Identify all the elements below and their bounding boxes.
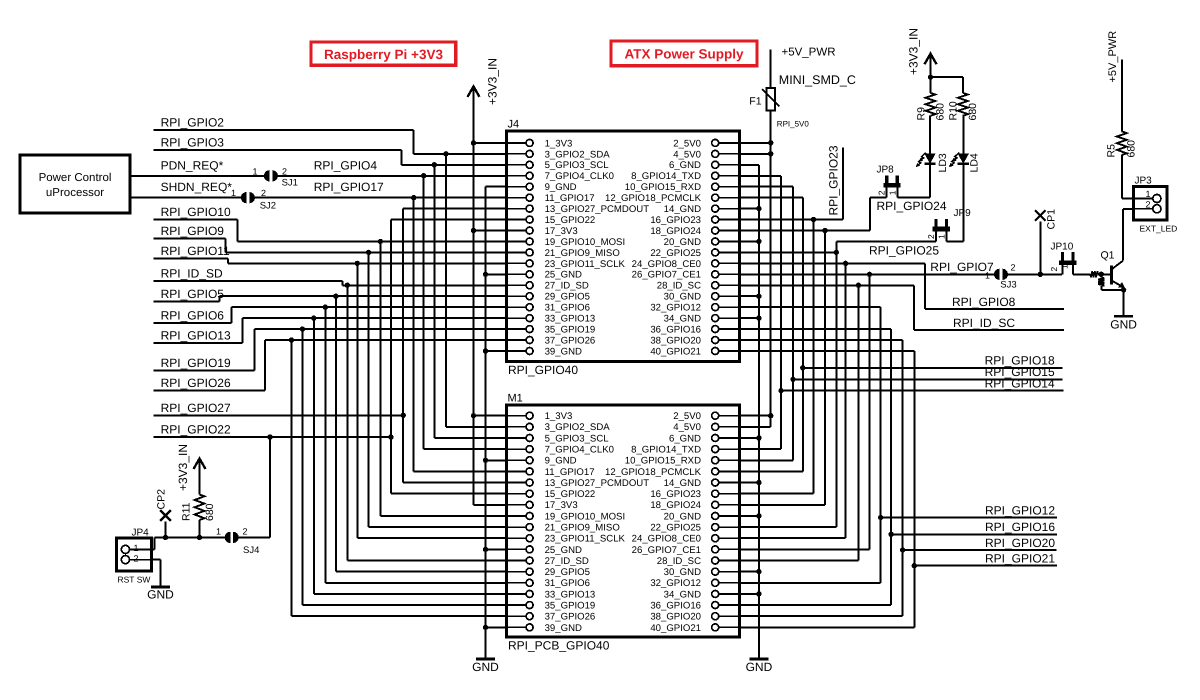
solder jumper SJ3	[994, 269, 1000, 280]
J4 pin 3 (3_GPIO2_SDA)	[507, 153, 527, 155]
junction RPI_GPIO6	[323, 304, 328, 309]
svg-text:1: 1	[985, 271, 990, 281]
J4 pin 7 (7_GPIO4_CLK0)	[507, 175, 527, 177]
M1 pin 2 (2_5V0)	[718, 415, 739, 417]
transistor Q1 pulldown resistor	[1100, 274, 1102, 277]
svg-text:9_GND: 9_GND	[545, 456, 577, 467]
svg-text:RPI_GPIO20: RPI_GPIO20	[985, 536, 1055, 550]
svg-text:RPI_GPIO40: RPI_GPIO40	[508, 363, 578, 377]
svg-text:11_GPIO17: 11_GPIO17	[545, 193, 595, 204]
svg-text:GND: GND	[1110, 318, 1137, 332]
svg-text:RPI_GPIO4: RPI_GPIO4	[314, 159, 378, 173]
svg-text:CP1: CP1	[1046, 209, 1058, 230]
wire RPI_GPIO13 vertical to M1	[313, 318, 315, 594]
svg-text:24_GPIO8_CE0: 24_GPIO8_CE0	[632, 534, 701, 545]
svg-text:MINI_SMD_C: MINI_SMD_C	[779, 73, 856, 87]
svg-text:25_GND: 25_GND	[545, 270, 582, 281]
resistor R10 680	[958, 93, 968, 116]
svg-text:19_GPIO10_MOSI: 19_GPIO10_MOSI	[545, 511, 626, 522]
J4 pin 30 (30_GND)	[718, 295, 739, 297]
svg-text:26_GPIO7_CE1: 26_GPIO7_CE1	[632, 270, 701, 281]
svg-text:RPI_GPIO6: RPI_GPIO6	[161, 309, 225, 323]
testpoint CP1	[1035, 210, 1046, 221]
J4 pin 31 (31_GPIO6)	[507, 306, 527, 308]
J4 pin 37 (37_GPIO26)	[507, 339, 527, 341]
net RPI_GPIO8	[740, 262, 925, 264]
svg-text:30_GND: 30_GND	[664, 567, 701, 578]
svg-text:F1: F1	[749, 96, 761, 108]
svg-text:34_GND: 34_GND	[664, 589, 701, 600]
svg-text:Q1: Q1	[1101, 250, 1115, 262]
wire JP3 pin2 to Q1 collector	[1123, 208, 1133, 210]
svg-text:2: 2	[926, 234, 936, 239]
svg-text:16_GPIO23: 16_GPIO23	[650, 489, 701, 500]
J4 pin 15 (15_GPIO22)	[507, 219, 527, 221]
wire RPI_GPIO11 vertical to M1	[356, 263, 358, 538]
wire RPI_GPIO26 label segment	[154, 389, 266, 391]
M1 pin 37 (37_GPIO26)	[507, 615, 527, 617]
J4 pin 21 (21_GPIO9_MISO)	[507, 251, 527, 253]
wire RPI_GPIO3 to J4	[402, 164, 507, 166]
wire RPI_GPIO19 vertical to M1	[301, 329, 303, 605]
svg-text:8_GPIO14_TXD: 8_GPIO14_TXD	[631, 445, 701, 456]
svg-text:17_3V3: 17_3V3	[545, 500, 578, 511]
svg-text:32_GPIO12: 32_GPIO12	[650, 303, 701, 314]
svg-text:15_GPIO22: 15_GPIO22	[545, 215, 596, 226]
J4 pin 27 (27_ID_SD)	[507, 284, 527, 286]
wire RPI_GPIO11 to J4	[228, 262, 507, 264]
M1 pin 28 (28_ID_SC)	[718, 560, 739, 562]
svg-text:680: 680	[1125, 140, 1137, 158]
J4 pin 12 (12_GPIO18_PCMCLK)	[718, 197, 739, 199]
junction RPI_GPIO11	[355, 261, 360, 266]
resistor R5 680 with +5V_PWR	[1122, 198, 1134, 200]
wire RPI_GPIO20 label segment	[903, 549, 1057, 551]
J4 pin 8 (8_GPIO14_TXD)	[718, 175, 739, 177]
svg-text:37_GPIO26: 37_GPIO26	[545, 335, 596, 346]
wire RPI_GPIO9 vertical to M1	[368, 252, 370, 527]
svg-text:19_GPIO10_MOSI: 19_GPIO10_MOSI	[545, 237, 626, 248]
J4 pin 32 (32_GPIO12)	[718, 306, 739, 308]
svg-text:23_GPIO11_SCLK: 23_GPIO11_SCLK	[545, 534, 626, 545]
svg-text:RPI_GPIO18: RPI_GPIO18	[985, 354, 1055, 368]
junction RPI_GPIO26	[289, 337, 294, 342]
svg-text:11_GPIO17: 11_GPIO17	[545, 467, 595, 478]
wire RPI_GPIO5 label segment	[154, 300, 220, 302]
svg-text:RPI_GPIO27: RPI_GPIO27	[161, 401, 231, 415]
wire RPI_GPIO3 vertical to M1	[433, 165, 435, 438]
wire RPI_GPIO12 J4/M1 vertical	[740, 306, 881, 308]
svg-text:ATX Power Supply: ATX Power Supply	[624, 47, 744, 62]
M1 pin 32 (32_GPIO12)	[718, 582, 739, 584]
svg-text:5_GPIO3_SCL: 5_GPIO3_SCL	[545, 433, 610, 444]
ground symbol below right rail	[749, 658, 768, 661]
wire RPI_GPIO9 label segment	[154, 237, 226, 239]
svg-text:36_GPIO16: 36_GPIO16	[650, 600, 701, 611]
svg-text:26_GPIO7_CE1: 26_GPIO7_CE1	[632, 545, 701, 556]
wire RPI_GPIO19 to J4	[255, 328, 507, 330]
J4 pin 34 (34_GND)	[718, 317, 739, 319]
svg-text:CP2: CP2	[156, 489, 168, 510]
J4 pin 6 (6_GND)	[718, 164, 739, 166]
J4 pin 38 (38_GPIO20)	[718, 339, 739, 341]
svg-text:34_GND: 34_GND	[664, 314, 701, 325]
power +3V3_IN rail into pins 1/17 of J4 and M1	[468, 86, 480, 97]
M1 pin 33 (33_GPIO13)	[507, 593, 527, 595]
net RPI_GPIO24 from J4/M1 pin 18	[740, 230, 871, 232]
svg-text:GND: GND	[147, 588, 174, 602]
svg-text:39_GND: 39_GND	[545, 623, 582, 634]
svg-text:2: 2	[1049, 267, 1059, 272]
wire RPI_GPIO13 label segment	[154, 342, 243, 344]
svg-text:2: 2	[1145, 199, 1150, 209]
wire RPI_GPIO19 label segment	[154, 369, 255, 371]
wire RPI_GPIO3 label segment	[154, 149, 402, 151]
J4 pin 9 (9_GND)	[507, 186, 527, 188]
svg-text:SJ2: SJ2	[260, 201, 276, 212]
svg-text:3_GPIO2_SDA: 3_GPIO2_SDA	[545, 422, 611, 433]
svg-text:GND: GND	[472, 660, 499, 674]
svg-text:1_3V3: 1_3V3	[545, 411, 573, 422]
svg-text:+5V_PWR: +5V_PWR	[782, 47, 836, 59]
svg-text:4_5V0: 4_5V0	[673, 149, 701, 160]
wire RPI_GPIO12 label segment	[881, 517, 1057, 519]
junction RPI_GPIO18	[800, 365, 805, 370]
svg-text:12_GPIO18_PCMCLK: 12_GPIO18_PCMCLK	[605, 467, 702, 478]
M1 pin 9 (9_GND)	[507, 459, 527, 461]
svg-text:2: 2	[134, 553, 139, 563]
svg-text:680: 680	[967, 103, 979, 121]
svg-text:39_GND: 39_GND	[545, 346, 582, 357]
svg-text:M1: M1	[508, 393, 523, 405]
svg-text:R5: R5	[1105, 144, 1117, 158]
M1 pin 34 (34_GND)	[718, 593, 739, 595]
svg-text:14_GND: 14_GND	[664, 478, 701, 489]
M1 pin 23 (23_GPIO11_SCLK)	[507, 537, 527, 539]
M1 pin 16 (16_GPIO23)	[718, 493, 739, 495]
svg-text:JP3: JP3	[1135, 176, 1153, 187]
svg-text:7_GPIO4_CLK0: 7_GPIO4_CLK0	[545, 445, 614, 456]
wire RPI_GPIO10 vertical to M1	[379, 241, 381, 515]
svg-text:RPI_5V0: RPI_5V0	[777, 120, 810, 129]
svg-text:1: 1	[887, 190, 897, 195]
svg-text:16_GPIO23: 16_GPIO23	[650, 215, 701, 226]
title Raspberry Pi +3V3	[311, 42, 456, 65]
svg-text:RPI_ID_SD: RPI_ID_SD	[161, 266, 223, 280]
wire RPI_GPIO18 J4/M1 vertical	[740, 197, 803, 199]
wire RPI_GPIO21 label segment	[914, 565, 1057, 567]
svg-text:RPI_GPIO2: RPI_GPIO2	[161, 116, 225, 130]
junction RPI_GPIO2	[443, 151, 448, 156]
svg-text:13_GPIO27_PCMDOUT: 13_GPIO27_PCMDOUT	[545, 478, 650, 489]
svg-text:RPI_GPIO5: RPI_GPIO5	[161, 287, 225, 301]
J4 pin 10 (10_GPIO15_RXD)	[718, 186, 739, 188]
svg-text:RPI_GPIO23: RPI_GPIO23	[827, 145, 841, 215]
svg-text:2: 2	[243, 527, 248, 537]
M1 pin 20 (20_GND)	[718, 515, 739, 517]
svg-text:40_GPIO21: 40_GPIO21	[650, 623, 701, 634]
junction RPI_GPIO16	[888, 532, 893, 537]
svg-text:2: 2	[877, 190, 887, 195]
svg-text:22_GPIO25: 22_GPIO25	[650, 523, 701, 534]
block Power Control uProcessor	[20, 155, 130, 213]
J4 pin 39 (39_GND)	[507, 350, 527, 352]
svg-text:10_GPIO15_RXD: 10_GPIO15_RXD	[625, 182, 701, 193]
junction RPI_GPIO5	[333, 294, 338, 299]
wire RPI_GPIO6 label segment	[154, 322, 232, 324]
M1 pin 4 (4_5V0)	[718, 426, 739, 428]
J4 pin 13 (13_GPIO27_PCMDOUT)	[507, 208, 527, 210]
svg-text:+3V3_IN: +3V3_IN	[907, 28, 921, 75]
svg-text:36_GPIO16: 36_GPIO16	[650, 324, 701, 335]
svg-text:1: 1	[216, 527, 221, 537]
wire RPI_GPIO5 vertical to M1	[335, 296, 337, 571]
ground symbol Q1 emitter	[1114, 315, 1133, 318]
jumper JP10	[1061, 252, 1064, 265]
svg-text:7_GPIO4_CLK0: 7_GPIO4_CLK0	[545, 171, 614, 182]
svg-text:35_GPIO19: 35_GPIO19	[545, 600, 596, 611]
svg-text:2: 2	[261, 188, 266, 198]
wire RPI_ID_SD vertical to M1	[346, 285, 348, 560]
svg-text:20_GND: 20_GND	[664, 511, 701, 522]
net RPI_GPIO7 from J4/M1 pin 26	[740, 273, 996, 275]
J4 pin 19 (19_GPIO10_MOSI)	[507, 240, 527, 242]
M1 pin 3 (3_GPIO2_SDA)	[507, 426, 527, 428]
svg-text:RPI_GPIO12: RPI_GPIO12	[985, 503, 1055, 517]
svg-text:8_GPIO14_TXD: 8_GPIO14_TXD	[631, 171, 701, 182]
svg-text:12_GPIO18_PCMCLK: 12_GPIO18_PCMCLK	[605, 193, 702, 204]
svg-text:38_GPIO20: 38_GPIO20	[650, 335, 701, 346]
svg-text:LD3: LD3	[937, 153, 949, 172]
junction RPI_GPIO12	[878, 515, 883, 520]
svg-text:9_GND: 9_GND	[545, 182, 577, 193]
svg-text:680: 680	[204, 503, 216, 521]
svg-text:RPI_GPIO21: RPI_GPIO21	[985, 552, 1055, 566]
M1 pin 19 (19_GPIO10_MOSI)	[507, 515, 527, 517]
wire RPI_ID_SD to J4	[343, 284, 507, 286]
svg-text:JP10: JP10	[1051, 242, 1074, 253]
svg-text:32_GPIO12: 32_GPIO12	[650, 578, 701, 589]
svg-text:RPI_PCB_GPIO40: RPI_PCB_GPIO40	[508, 639, 610, 653]
wire RPI_GPIO6 to J4	[232, 306, 507, 308]
M1 pin 39 (39_GND)	[507, 626, 527, 628]
M1 pin 24 (24_GPIO8_CE0)	[718, 537, 739, 539]
svg-text:17_3V3: 17_3V3	[545, 226, 578, 237]
M1 pin 14 (14_GND)	[718, 482, 739, 484]
M1 pin 17 (17_3V3)	[507, 504, 527, 506]
wire RPI_GPIO10 label segment	[154, 218, 238, 220]
net RPI_ID_SC	[740, 284, 914, 286]
junction RPI_ID_SD	[345, 283, 350, 288]
svg-text:18_GPIO24: 18_GPIO24	[650, 226, 701, 237]
svg-text:RPI_GPIO13: RPI_GPIO13	[161, 329, 231, 343]
junction RPI_GPIO19	[300, 326, 305, 331]
J4 pin 18 (18_GPIO24)	[718, 230, 739, 232]
wire RPI_GPIO2 vertical to M1	[445, 154, 447, 427]
junction RPI_GPIO10	[378, 239, 383, 244]
LED LD3	[929, 165, 931, 197]
J4 pin 33 (33_GPIO13)	[507, 317, 527, 319]
M1 pin 10 (10_GPIO15_RXD)	[718, 459, 739, 461]
wire RPI_GPIO27 label segment	[154, 414, 404, 416]
M1 pin 30 (30_GND)	[718, 571, 739, 573]
svg-text:10_GPIO15_RXD: 10_GPIO15_RXD	[625, 456, 701, 467]
J4 pin 24 (24_GPIO8_CE0)	[718, 262, 739, 264]
ground symbol JP4	[151, 586, 170, 589]
title ATX Power Supply	[611, 41, 757, 66]
LED LD4	[962, 165, 964, 242]
svg-text:40_GPIO21: 40_GPIO21	[650, 346, 701, 357]
svg-text:+3V3_IN: +3V3_IN	[486, 58, 500, 105]
svg-text:31_GPIO6: 31_GPIO6	[545, 303, 590, 314]
wire RPI_GPIO5 to J4	[219, 295, 506, 297]
J4 pin 2 (2_5V0)	[718, 142, 739, 144]
svg-text:RPI_GPIO16: RPI_GPIO16	[985, 520, 1055, 534]
svg-text:14_GND: 14_GND	[664, 204, 701, 215]
svg-text:20_GND: 20_GND	[664, 237, 701, 248]
svg-text:J4: J4	[508, 119, 520, 131]
connector J4 body	[507, 131, 740, 362]
svg-text:EXT_LED: EXT_LED	[1140, 224, 1178, 234]
wire RPI_GPIO22 label segment	[154, 436, 391, 438]
svg-text:SJ4: SJ4	[243, 545, 259, 556]
junction RPI_GPIO13	[311, 315, 316, 320]
svg-text:Power Control: Power Control	[39, 172, 112, 184]
svg-text:37_GPIO26: 37_GPIO26	[545, 612, 596, 623]
svg-text:RPI_GPIO9: RPI_GPIO9	[161, 224, 225, 238]
svg-text:23_GPIO11_SCLK: 23_GPIO11_SCLK	[545, 259, 626, 270]
svg-text:27_ID_SD: 27_ID_SD	[545, 281, 589, 292]
transistor Q1 (digital) base resistor	[1090, 271, 1098, 277]
M1 pin 38 (38_GPIO20)	[718, 615, 739, 617]
solder jumper SJ4	[225, 532, 231, 543]
J4 pin 28 (28_ID_SC)	[718, 284, 739, 286]
wire RPI_GPIO16 J4/M1 vertical	[740, 328, 892, 330]
M1 pin 13 (13_GPIO27_PCMDOUT)	[507, 482, 527, 484]
J4 pin 4 (4_5V0)	[718, 153, 739, 155]
wire RPI_GPIO26 vertical to M1	[290, 340, 292, 616]
junction RPI_GPIO20	[900, 547, 905, 552]
J4 pin 1 (1_3V3)	[507, 142, 527, 144]
svg-text:R10: R10	[948, 101, 960, 120]
svg-text:29_GPIO5: 29_GPIO5	[545, 567, 590, 578]
svg-text:18_GPIO24: 18_GPIO24	[650, 500, 701, 511]
net RPI_GPIO25 from J4/M1 pin 22	[740, 251, 837, 253]
svg-text:38_GPIO20: 38_GPIO20	[650, 612, 701, 623]
wire JP4 pin2 to ground	[152, 559, 161, 561]
svg-text:31_GPIO6: 31_GPIO6	[545, 578, 590, 589]
svg-text:13_GPIO27_PCMDOUT: 13_GPIO27_PCMDOUT	[545, 204, 650, 215]
svg-text:JP4: JP4	[132, 528, 150, 539]
jumper JP9	[934, 219, 937, 231]
wire RPI_ID_SD label segment	[154, 280, 343, 282]
M1 pin 31 (31_GPIO6)	[507, 582, 527, 584]
M1 pin 8 (8_GPIO14_TXD)	[718, 448, 739, 450]
M1 pin 5 (5_GPIO3_SCL)	[507, 437, 527, 439]
junction RPI_GPIO9	[366, 250, 371, 255]
svg-text:PDN_REQ*: PDN_REQ*	[161, 159, 224, 173]
wire RPI_GPIO14 J4/M1 vertical	[740, 175, 782, 177]
connector JP3 EXT_LED	[1133, 187, 1167, 220]
svg-text:JP8: JP8	[877, 165, 895, 176]
svg-text:25_GND: 25_GND	[545, 545, 582, 556]
svg-text:21_GPIO9_MISO: 21_GPIO9_MISO	[545, 248, 620, 259]
svg-text:1: 1	[252, 167, 257, 177]
M1 pin 40 (40_GPIO21)	[718, 626, 739, 628]
svg-text:3_GPIO2_SDA: 3_GPIO2_SDA	[545, 149, 611, 160]
wire RPI_GPIO26 to J4	[265, 339, 506, 341]
M1 pin 25 (25_GND)	[507, 548, 527, 550]
svg-text:RPI_GPIO17: RPI_GPIO17	[314, 180, 384, 194]
svg-text:R9: R9	[915, 107, 927, 121]
M1 pin 29 (29_GPIO5)	[507, 571, 527, 573]
junction RPI_GPIO14	[778, 388, 783, 393]
testpoint CP2	[163, 535, 168, 540]
M1 pin 26 (26_GPIO7_CE1)	[718, 548, 739, 550]
J4 pin 5 (5_GPIO3_SCL)	[507, 164, 527, 166]
wire RPI_GPIO18 label segment	[803, 367, 1063, 369]
junction RPI_GPIO3	[432, 162, 437, 167]
svg-text:SJ1: SJ1	[282, 178, 298, 189]
svg-text:LD4: LD4	[969, 153, 981, 172]
J4 pin 26 (26_GPIO7_CE1)	[718, 273, 739, 275]
J4 pin 14 (14_GND)	[718, 208, 739, 210]
svg-text:6_GND: 6_GND	[669, 433, 701, 444]
wire RPI_GPIO21 J4/M1 vertical	[740, 350, 915, 352]
svg-text:2_5V0: 2_5V0	[673, 411, 701, 422]
svg-text:RPI_GPIO3: RPI_GPIO3	[161, 136, 225, 150]
wire RPI_GPIO2 to J4	[414, 153, 507, 155]
J4 pin 23 (23_GPIO11_SCLK)	[507, 262, 527, 264]
svg-text:6_GND: 6_GND	[669, 160, 701, 171]
svg-text:RST SW: RST SW	[118, 575, 151, 585]
M1 pin 22 (22_GPIO25)	[718, 526, 739, 528]
svg-text:RPI_ID_SC: RPI_ID_SC	[953, 316, 1015, 330]
branch from RPI_GPIO22 down to reset circuit	[267, 434, 272, 439]
svg-text:5_GPIO3_SCL: 5_GPIO3_SCL	[545, 160, 610, 171]
M1 pin 11 (11_GPIO17)	[507, 470, 527, 472]
wire RPI_GPIO22 vertical J4 to M1	[390, 220, 392, 494]
M1 pin 6 (6_GND)	[718, 437, 739, 439]
svg-text:2: 2	[1011, 263, 1016, 273]
M1 pin 15 (15_GPIO22)	[507, 493, 527, 495]
wire RPI_GPIO13 to J4	[243, 317, 507, 319]
svg-text:28_ID_SC: 28_ID_SC	[657, 281, 701, 292]
net RPI_GPIO23	[740, 219, 843, 221]
transistor Q1 body	[1101, 273, 1111, 275]
resistor R9 680	[926, 93, 936, 116]
M1 pin 35 (35_GPIO19)	[507, 604, 527, 606]
J4 pin 25 (25_GND)	[507, 273, 527, 275]
svg-text:+3V3_IN: +3V3_IN	[176, 444, 190, 491]
M1 pin 21 (21_GPIO9_MISO)	[507, 526, 527, 528]
svg-text:uProcessor: uProcessor	[46, 187, 104, 199]
junction RPI_GPIO15	[790, 377, 795, 382]
wire RPI_GPIO15 J4/M1 vertical	[740, 186, 794, 188]
J4 pin 22 (22_GPIO25)	[718, 251, 739, 253]
svg-text:15_GPIO22: 15_GPIO22	[545, 489, 596, 500]
M1 pin 27 (27_ID_SD)	[507, 560, 527, 562]
J4 pin 16 (16_GPIO23)	[718, 219, 739, 221]
svg-text:1: 1	[231, 188, 236, 198]
svg-text:2_5V0: 2_5V0	[673, 138, 701, 149]
svg-text:RPI_GPIO24: RPI_GPIO24	[877, 199, 947, 213]
ground rail right (pins 6/14/20/30/34)	[758, 165, 760, 659]
wire RPI_GPIO2 label segment	[154, 129, 414, 131]
J4 pin 29 (29_GPIO5)	[507, 295, 527, 297]
svg-text:27_ID_SD: 27_ID_SD	[545, 556, 589, 567]
svg-text:Raspberry Pi +3V3: Raspberry Pi +3V3	[324, 47, 443, 62]
